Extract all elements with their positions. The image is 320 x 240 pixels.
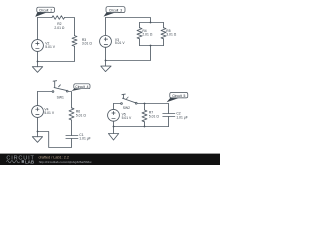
footer banner [0, 154, 220, 165]
wire V3 bottom circuit 3 [105, 47, 107, 60]
ground circuit 3 [101, 61, 111, 72]
svg-text:Circuit_4: Circuit_4 [75, 85, 88, 89]
svg-text:Circuit_5: Circuit_5 [172, 94, 185, 98]
node junction circuit 4 ground [37, 131, 39, 133]
wire top-left segment circuit 2 [38, 17, 53, 19]
svg-text:Circuit_3: Circuit_3 [109, 8, 122, 12]
svg-text:5.01 Ω: 5.01 Ω [76, 114, 86, 118]
ground circuit 4 [32, 132, 42, 143]
switch SW1 [52, 81, 68, 100]
svg-text:SW1: SW1 [57, 96, 64, 100]
wire top-left circuit 4 [38, 91, 53, 93]
ground circuit 2 [32, 62, 42, 73]
svg-text:5.01 V: 5.01 V [44, 111, 54, 115]
ground circuit 5 [108, 127, 118, 141]
wire top-right segment circuit 2 [65, 18, 75, 36]
resistor R7 [142, 110, 147, 122]
node junction circuit 5 ground [113, 126, 115, 128]
resistor R5 [161, 28, 166, 39]
wire left-top circuit 5 [113, 104, 115, 110]
svg-text:5.01 V: 5.01 V [122, 116, 132, 120]
wire R7 top lead [144, 104, 146, 111]
svg-text:5.01 V: 5.01 V [45, 45, 55, 49]
wire R5 top lead [163, 23, 165, 28]
switch SW2 [121, 94, 137, 110]
wire R4 top lead [139, 23, 141, 28]
voltage source V2 [32, 40, 56, 52]
node junction R7 bottom [144, 126, 146, 128]
resistor R6 [69, 108, 74, 120]
wire top circuit 3 [106, 18, 151, 23]
resistor R3 [72, 36, 77, 47]
svg-text:3.01 Ω: 3.01 Ω [166, 33, 176, 37]
node label tag Circuit_2 [35, 7, 54, 17]
capacitor C1 [66, 133, 91, 141]
node junction R7 top [144, 103, 146, 105]
wire V2 bottom circuit 2 [37, 52, 39, 62]
resistor R2 [52, 16, 65, 20]
svg-text:2.01 Ω: 2.01 Ω [54, 26, 64, 30]
resistor R4 [137, 28, 142, 39]
svg-text:5.01 V: 5.01 V [115, 41, 125, 45]
wire top-left circuit 5 [114, 103, 121, 105]
capacitor C2 [163, 112, 188, 120]
wire parallel box bottom rail circuit 3 [140, 45, 164, 47]
wire C2 bottom lead [168, 117, 170, 127]
wire bottom rail circuit 5 [114, 126, 169, 128]
wire parallel box top rail circuit 3 [140, 22, 164, 24]
svg-text:5.01 Ω: 5.01 Ω [149, 115, 159, 119]
wire bottom circuit 4 [38, 132, 72, 148]
svg-text:http://circuitlab.com/c/qfubg3: http://circuitlab.com/c/qfubg326at5b6w [39, 160, 93, 164]
wire R4 bottom lead [139, 39, 141, 46]
node junction circuit 3 bottom [150, 45, 152, 47]
wire top-right circuit 5 [137, 103, 168, 105]
wire right-bottom circuit 2 [38, 46, 75, 61]
node junction circuit 2 ground [37, 61, 39, 63]
wire top-right circuit 4 [68, 92, 71, 108]
node label tag Circuit_3 [104, 7, 126, 17]
wire V4 bottom circuit 4 [37, 117, 39, 131]
svg-text:2.01 Ω: 2.01 Ω [142, 33, 152, 37]
voltage source V3 [100, 36, 126, 48]
wire left-top circuit 4 [37, 92, 39, 106]
node junction circuit 3 top [150, 22, 152, 24]
svg-text:Circuit_2: Circuit_2 [39, 9, 52, 13]
svg-text:drafted / Lab1: 2.2: drafted / Lab1: 2.2 [39, 155, 69, 159]
svg-text:1.01 μF: 1.01 μF [79, 137, 90, 141]
node label tag Circuit_4 [72, 84, 91, 91]
wire R6 to C1 [71, 120, 73, 136]
voltage source V5 [108, 109, 132, 121]
wire V5 bottom circuit 5 [113, 121, 115, 126]
svg-text:3.01 Ω: 3.01 Ω [82, 42, 92, 46]
svg-text:LAB: LAB [25, 159, 34, 164]
node junction circuit 3 ground [105, 60, 107, 62]
node label tag Circuit_5 [167, 93, 188, 103]
wire bottom circuit 3 [106, 46, 151, 61]
wire left-top circuit 2 [37, 18, 39, 40]
CircuitLab logo [6, 155, 34, 164]
voltage source V4 [32, 106, 55, 118]
wire R7 bottom lead [144, 122, 146, 127]
svg-text:SW2: SW2 [123, 106, 130, 110]
wire R5 bottom lead [163, 39, 165, 46]
wire C2 top lead [168, 104, 170, 114]
svg-text:1.01 μF: 1.01 μF [176, 115, 187, 119]
wire left-top circuit 3 [105, 18, 107, 36]
